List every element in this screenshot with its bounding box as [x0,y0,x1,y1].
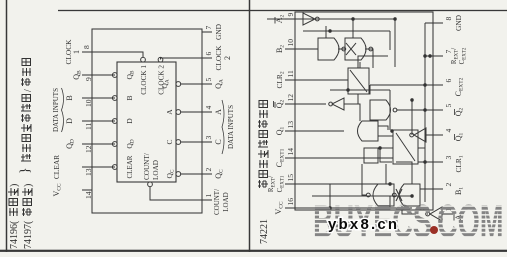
page left border [0,250,507,252]
small block ch1 [364,148,378,163]
clr1 horizontal [380,148,392,162]
pin 8 wire CLOCK1 [82,52,143,58]
pin 15 wire REXT/CEXT1 [285,183,393,185]
latch2 cross wires [267,19,373,68]
pin 10 wire B2 [285,48,318,50]
gate Q1 out [358,121,379,141]
cext2 tap [369,85,370,94]
wire y390 [389,90,391,130]
inner function box [117,62,176,182]
bubble left edge (COUNT/LOAD) [148,182,153,187]
outer box U2 [295,12,433,210]
junction dots fig2 [328,17,432,210]
nand gate G1b (B1) [399,184,420,206]
A2 feed to gate [319,19,395,67]
pin 14 wire CEXT1 [285,157,393,159]
pin 3 wire C [181,141,212,143]
latch cross-coupling ch2 [346,43,356,55]
brace over DATA INPUTS (top pins D,B) [62,88,64,132]
timing block ch2 [348,68,369,94]
bubbles right edge (CLOCK1, CLOCK2) [141,57,146,62]
cross wire y360 [359,62,361,68]
wire from Q1 gate top cross [348,104,360,121]
pin 2 wire B1 [420,188,443,190]
pin 8 wire GND [425,22,443,24]
svg-text:COM: COM [437,196,504,248]
vcc branches [330,184,390,208]
pin 5 wire Q2 [397,109,443,111]
pin 7 stub GND [202,31,212,33]
pin 6 wire CLOCK2 [161,58,213,60]
pin 12 wire QB2 [285,103,326,105]
pin 16 wire VCC rail [285,207,412,209]
qb1 buffer input [448,134,462,136]
pin 14 stub VCC [82,189,92,191]
separator rule between figures [249,0,251,252]
pin 9 wire QB [82,74,115,76]
watermark hatched text BUYECS.COM [313,196,504,248]
outer package box U1 [92,29,202,213]
q1 gate inputs [344,126,393,136]
fig1 pin numbers top [82,45,93,199]
clr2 into timing [347,80,349,81]
pin 4 wire A [181,111,212,113]
nand gate G2b (latch 2) [345,38,366,60]
connection bubbles on inner box top edge [112,165,117,170]
fig2 pin numbers bottom [444,17,453,212]
vertical x104 [380,147,393,149]
pin 3 wire CLR1 [418,161,443,163]
svg-text:ybx8.cn: ybx8.cn [328,216,399,233]
fig2 outside bottom labels [451,14,468,220]
pin 2 wire QC [181,173,212,175]
inverter A2 [303,13,315,25]
fig1 outside bottom labels [213,23,235,215]
figure 1 caption: 74196 decimal / 74197 binary presettable counter/latch [8,59,34,250]
vertical x162 [330,89,390,91]
latch cross-coupling ch1 [396,189,402,201]
fig1 outside top labels [52,39,83,197]
fig2 pin numbers top [286,13,295,206]
watermark red dot (period of .COM) [430,226,438,234]
ch1 latch wires [362,162,428,214]
second left rail wire [312,195,412,197]
brace under bottom DATA INPUTS (pins C,A) [222,100,224,154]
pin 4 wire QB1 [426,134,443,136]
inverter QB2 out [332,98,344,110]
internal connecting wires fig2 [267,19,462,214]
page top border [6,0,8,252]
timing block ch1 [393,130,418,164]
pin 1 wire A1 [442,213,453,215]
figure 2 caption: 74221 dual monostable multivibrator [258,101,270,245]
bubbles bottom edge [176,172,181,177]
fig1 pin numbers bottom [204,26,213,198]
pin 9 wire A2 [285,18,303,20]
pin 11 wire D [82,120,115,122]
long feedback wire y425 [424,22,426,24]
pin 7 wire REXT/CEXT2 [425,55,443,57]
A2 parallel feed wire [303,30,390,32]
pin 1 wire COUNT/LOAD [150,187,212,201]
fig2 outside top labels [268,14,286,214]
latch cross wire [326,31,390,50]
fig1 inside labels [125,70,176,178]
gnd rail [424,23,426,202]
gate Q2 out [370,100,391,120]
pin 11 wire CLR2 [285,79,348,81]
inverter A1 [430,207,442,221]
pin 12 wire QD [82,143,115,145]
pin 6 wire CEXT2 [370,84,443,86]
inverter QB1 out [414,128,426,142]
pin 13 wire CLEAR [82,166,115,168]
timing2 to buffer [344,56,388,104]
pin 10 wire B [82,97,115,99]
pin 13 wire Q1 [285,130,344,132]
wire y440 [411,100,413,135]
pin 5 wire QA [181,83,212,85]
nand gate G1a (latch 1) [373,184,394,206]
page right border [58,10,507,12]
nand gate G2a (B2 latch) [318,38,339,60]
